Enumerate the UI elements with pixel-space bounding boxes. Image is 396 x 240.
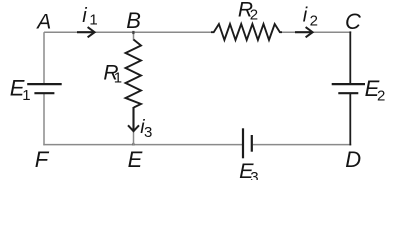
current arrow i3 bbox=[128, 107, 139, 131]
wire left E1-F bbox=[43, 93, 45, 145]
battery E1 bbox=[27, 84, 62, 93]
svg-text:D: D bbox=[345, 147, 361, 172]
svg-text:A: A bbox=[35, 10, 51, 33]
svg-text:2: 2 bbox=[310, 12, 318, 29]
svg-text:F: F bbox=[35, 147, 50, 172]
battery E3 bbox=[243, 128, 252, 158]
svg-text:2: 2 bbox=[250, 7, 258, 24]
current arrow i2 bbox=[295, 27, 313, 37]
node B junction tick bbox=[132, 31, 134, 34]
svg-text:3: 3 bbox=[250, 169, 258, 180]
wire bottom E3-D bbox=[253, 144, 351, 146]
wire left A-E1 bbox=[43, 32, 45, 84]
node E junction tick bbox=[132, 143, 134, 146]
wire right E2-D (black) bbox=[349, 93, 351, 145]
wire right C-E2 (black) bbox=[349, 31, 351, 84]
svg-text:1: 1 bbox=[114, 70, 122, 87]
svg-text:C: C bbox=[345, 9, 361, 34]
svg-text:2: 2 bbox=[377, 88, 385, 105]
current arrow i1 bbox=[77, 27, 95, 37]
svg-text:i: i bbox=[303, 5, 308, 27]
svg-text:i: i bbox=[82, 5, 87, 27]
battery E2 bbox=[332, 84, 365, 93]
wire stub i3 arrow to E bbox=[133, 131, 135, 145]
svg-text:B: B bbox=[126, 8, 141, 33]
svg-text:E: E bbox=[128, 147, 143, 172]
wire top R2-C bbox=[280, 31, 351, 33]
wire stub B to R1 bbox=[133, 32, 135, 40]
resistor R2 bbox=[211, 24, 282, 40]
wire bottom F-E-E3 bbox=[43, 144, 242, 146]
resistor R1 bbox=[126, 40, 142, 108]
wire top A-B-R2 bbox=[44, 31, 214, 33]
svg-text:1: 1 bbox=[89, 12, 97, 29]
svg-text:3: 3 bbox=[144, 124, 152, 141]
svg-text:1: 1 bbox=[22, 87, 30, 104]
